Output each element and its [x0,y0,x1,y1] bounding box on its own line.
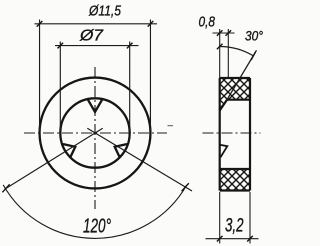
svg-text:Ø7: Ø7 [79,28,104,45]
svg-text:0,8: 0,8 [199,14,216,31]
svg-text:3,2: 3,2 [225,216,244,237]
svg-text:120°: 120° [83,216,111,238]
svg-text:Ø11,5: Ø11,5 [88,3,121,20]
svg-text:30°: 30° [245,29,263,44]
